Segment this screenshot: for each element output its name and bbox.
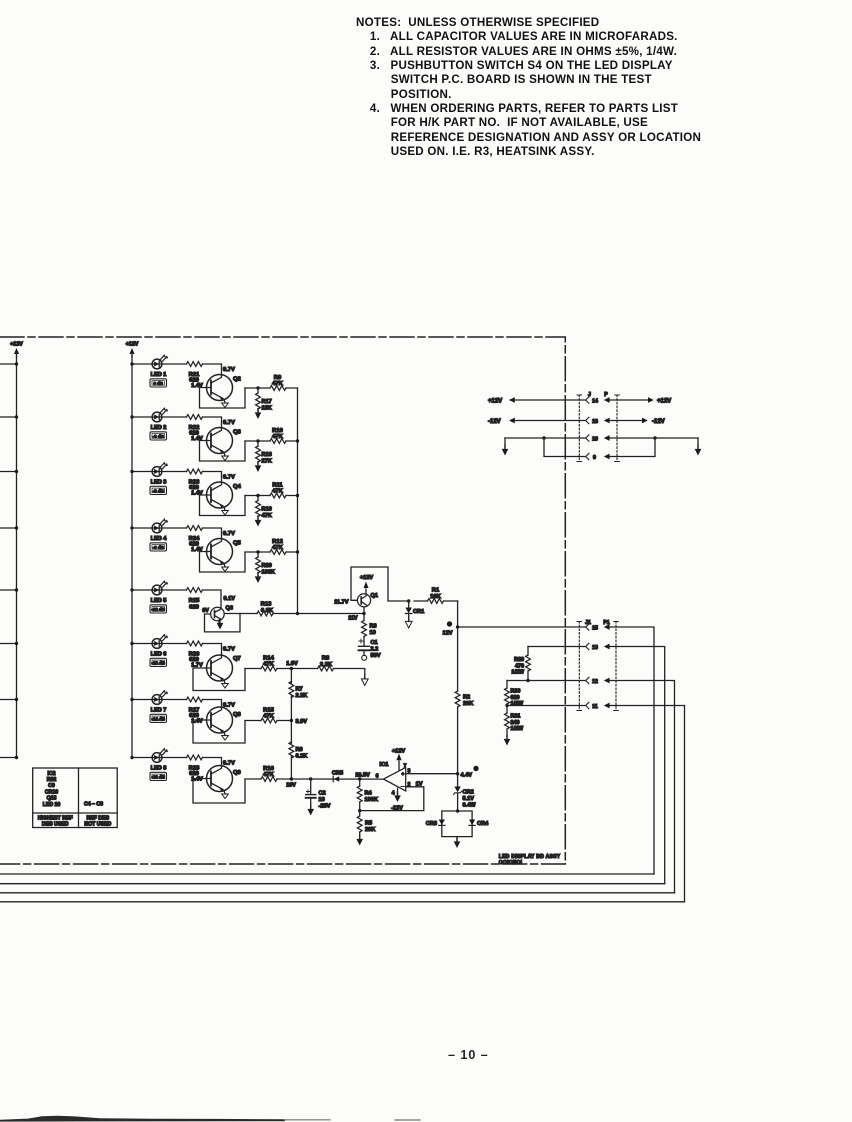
svg-text:10.5V: 10.5V [355, 772, 370, 778]
svg-text:-12V: -12V [488, 419, 501, 425]
node rail junction LED 1 row [130, 362, 133, 365]
wire to base of Q6 [203, 590, 222, 609]
junction node R18 [256, 439, 259, 442]
svg-text:IC2: IC2 [47, 771, 55, 777]
resistor R27 620 [187, 697, 203, 702]
svg-text:-12V: -12V [652, 419, 665, 425]
resistor R24 620 [187, 526, 203, 531]
label -30 dB box [150, 772, 167, 780]
ref designation table [33, 768, 118, 828]
svg-text:R4: R4 [365, 791, 373, 797]
svg-text:2.2K: 2.2K [296, 693, 308, 699]
junction node R17 [256, 386, 259, 389]
svg-text:180K: 180K [262, 570, 275, 576]
svg-text:14: 14 [592, 399, 598, 405]
LED 5 [152, 581, 168, 595]
emitter arrow Q6 [218, 620, 220, 623]
svg-text:CR5: CR5 [332, 771, 343, 777]
svg-text:Q4: Q4 [233, 484, 242, 490]
svg-text:6.8K: 6.8K [261, 608, 274, 614]
svg-text:C4 – C8: C4 – C8 [84, 802, 103, 808]
svg-text:470: 470 [515, 663, 524, 669]
junction node R19 [256, 494, 259, 497]
svg-text:240: 240 [511, 720, 520, 726]
svg-text:+12V: +12V [488, 399, 502, 405]
svg-text:R30: R30 [511, 689, 521, 695]
svg-text:-3 dB: -3 dB [153, 434, 164, 439]
node rail junction LED 5 row [130, 588, 133, 591]
svg-text:-9 dB: -9 dB [153, 545, 164, 550]
wire to base of Q2 [203, 364, 222, 375]
svg-text:HIGHEST REF: HIGHEST REF [38, 815, 73, 821]
svg-text:LED 1: LED 1 [151, 372, 167, 378]
wire bundle line 1 [0, 873, 654, 875]
wire Q1 base loop [351, 567, 409, 601]
svg-text:R2: R2 [463, 695, 470, 701]
svg-text:R3: R3 [370, 624, 377, 630]
resistor R30 620 1/2W [506, 681, 508, 689]
svg-text:1/2W: 1/2W [511, 726, 524, 732]
node rail junction LED 4 row [130, 526, 133, 529]
svg-text:R8: R8 [322, 656, 330, 662]
svg-text:CR10: CR10 [45, 789, 58, 795]
svg-text:Q18: Q18 [47, 796, 57, 802]
transistor Q1 [357, 594, 370, 607]
pin 15 row (12V) [458, 626, 585, 628]
resistor R31 240 1/2W [506, 706, 508, 714]
svg-text:13: 13 [592, 645, 598, 651]
svg-text:+12V: +12V [126, 342, 139, 348]
svg-text:620: 620 [511, 695, 520, 701]
transistor Q4 [207, 482, 233, 515]
wire connector dotted separators bottom [579, 622, 616, 711]
svg-text:+12V: +12V [657, 399, 671, 405]
pin 11 row [507, 705, 585, 707]
svg-text:10V: 10V [286, 783, 296, 789]
label -9 dB box [150, 543, 167, 551]
svg-text:Q7: Q7 [233, 656, 241, 662]
svg-text:0.7V: 0.7V [223, 647, 235, 653]
wire base return Q3 [200, 441, 246, 462]
svg-text:2.2K: 2.2K [320, 662, 333, 668]
ground arrow below box [456, 837, 458, 841]
svg-text:Q9: Q9 [233, 770, 242, 776]
resistor R8 2.2K [291, 669, 364, 679]
svg-text:50V: 50V [371, 653, 381, 659]
node rail junction LED 8 row [130, 756, 133, 759]
svg-text:47K: 47K [263, 714, 274, 720]
svg-text:11: 11 [592, 704, 598, 710]
wire off-page tick row y=590.0 [0, 589, 17, 591]
svg-text:47K: 47K [272, 545, 283, 551]
wire LED 2 row [132, 416, 187, 418]
svg-text:CR2: CR2 [463, 790, 474, 796]
svg-text:47K: 47K [272, 381, 283, 387]
transistor Q6 [211, 607, 225, 621]
wire base return Q7 [193, 668, 245, 691]
svg-text:-12 dB: -12 dB [151, 607, 164, 612]
svg-text:0 dB: 0 dB [153, 381, 163, 386]
svg-text:180K: 180K [365, 797, 378, 803]
svg-text:Q8: Q8 [233, 712, 242, 718]
wire to base of Q9 [203, 758, 222, 766]
diode CR1 [407, 599, 410, 602]
label -24 dB box [150, 714, 167, 722]
svg-text:IC1: IC1 [379, 762, 389, 768]
diode CR3 [439, 820, 445, 826]
diode CR5 [334, 776, 339, 782]
svg-text:CR1: CR1 [413, 609, 424, 615]
svg-text:20K: 20K [365, 827, 375, 833]
resistor R16 47K [261, 777, 277, 782]
wire node row stage 2 [245, 440, 298, 442]
wire node row stage 8 [245, 778, 291, 780]
page number [448, 1048, 489, 1062]
svg-text:1/2W: 1/2W [511, 670, 524, 676]
LED 6 [152, 635, 168, 649]
wire base return Q4 [200, 495, 246, 516]
wire to base of Q4 [203, 472, 222, 483]
wire base return Q6 [205, 614, 241, 632]
svg-text:+: + [401, 771, 404, 776]
svg-text:Q2: Q2 [233, 377, 241, 383]
svg-text:LED 6: LED 6 [151, 652, 167, 658]
resistor R3 10 [363, 614, 365, 621]
resistor R29 470 1/2W [527, 647, 529, 656]
svg-text:LED 5: LED 5 [151, 598, 167, 604]
svg-text:R25: R25 [189, 598, 200, 604]
wire divider ladder vertical [290, 669, 292, 780]
svg-text:Q3: Q3 [233, 430, 242, 436]
resistor R9 47K [270, 386, 286, 391]
svg-text:3.9V: 3.9V [296, 719, 308, 725]
svg-text:12: 12 [592, 679, 598, 685]
wire off-page tick row y=471.5 [0, 471, 17, 473]
wire LED 4 row [132, 527, 187, 529]
svg-text:0.4W: 0.4W [463, 803, 477, 809]
resistor R23 620 [187, 469, 203, 474]
svg-text:+12V: +12V [360, 575, 373, 581]
ground right [697, 438, 699, 448]
label -6 dB box [150, 486, 167, 494]
svg-text:R32: R32 [47, 777, 57, 783]
svg-text:0.7V: 0.7V [223, 761, 235, 767]
svg-text:5.1V: 5.1V [463, 796, 475, 802]
svg-text:+12V: +12V [392, 749, 405, 755]
wire off-page tick row y=699.5 [0, 699, 17, 701]
svg-text:1/2W: 1/2W [511, 701, 524, 707]
wire off-page tick row y=364.0 [0, 363, 17, 365]
svg-text:47K: 47K [263, 662, 274, 668]
label -18 dB box [150, 658, 167, 666]
pin 7 +12V [398, 761, 400, 770]
svg-text:20K: 20K [463, 701, 473, 707]
svg-text:1.9V: 1.9V [286, 661, 298, 667]
svg-text:620: 620 [189, 605, 199, 611]
LED 3 [152, 463, 168, 477]
notes text block [356, 16, 701, 159]
wire base return Q5 [200, 552, 246, 573]
wire off-page tick row y=417.0 [0, 416, 17, 418]
svg-text:C9: C9 [48, 783, 55, 789]
pin 4 -12V [397, 788, 399, 795]
svg-text:R18: R18 [262, 452, 272, 458]
wire to base of Q7 [203, 644, 222, 656]
svg-text:-24 dB: -24 dB [151, 716, 164, 721]
node 3.9V [290, 719, 293, 722]
svg-text:47K: 47K [262, 513, 272, 519]
svg-text:7: 7 [404, 764, 407, 770]
wire connector dotted separators top [579, 395, 617, 462]
node 11V [362, 612, 365, 615]
svg-text:R31: R31 [511, 714, 521, 720]
wire to base of Q5 [203, 528, 222, 539]
wire off-page tick row y=757.5 [0, 757, 17, 759]
label -12 dB box [150, 605, 167, 613]
scan artifact bottom edge [0, 1116, 285, 1122]
svg-text:LED 3: LED 3 [151, 480, 167, 486]
svg-text:10K: 10K [430, 594, 441, 600]
wire LED 3 row [132, 471, 187, 473]
svg-text:16: 16 [592, 419, 598, 425]
resistor R18 27K [257, 441, 259, 446]
wire bundle line 4 [0, 901, 685, 903]
transistor Q9 [207, 766, 233, 799]
svg-text:10: 10 [592, 437, 598, 443]
svg-text:12V: 12V [443, 631, 453, 637]
svg-text:11.7V: 11.7V [334, 600, 349, 606]
svg-text:R7: R7 [296, 687, 303, 693]
svg-text:R13: R13 [261, 602, 272, 608]
svg-text:Q6: Q6 [226, 606, 233, 612]
svg-text:LED 16: LED 16 [43, 802, 61, 808]
resistor R25 620 [187, 588, 203, 593]
svg-text:27K: 27K [262, 459, 272, 465]
wire off-page tick row y=643.5 [0, 643, 17, 645]
node 10V [290, 777, 293, 780]
wire LED 5 row [132, 589, 187, 591]
svg-text:R17: R17 [262, 399, 272, 405]
resistor R4 180K [358, 777, 361, 780]
svg-text:10: 10 [370, 630, 376, 636]
svg-text:LED 8: LED 8 [151, 766, 167, 772]
resistor R17 15K [257, 388, 259, 393]
resistor R5 20K [358, 809, 361, 812]
LED 4 [152, 519, 168, 533]
resistor R6 6.2K [289, 742, 294, 758]
wire bundle line 3 [0, 892, 675, 894]
svg-text:4: 4 [392, 791, 395, 797]
resistor R13 6.8K [257, 611, 273, 616]
diode CR4 [469, 820, 475, 826]
svg-text:9: 9 [593, 455, 596, 461]
resistor R19 47K [257, 496, 259, 501]
svg-text:0.7V: 0.7V [223, 531, 235, 537]
svg-text:-30 dB: -30 dB [151, 774, 164, 779]
svg-text:6V: 6V [202, 608, 209, 614]
node 1.9V [290, 667, 293, 670]
resistor R11 47K [270, 493, 286, 498]
svg-text:47K: 47K [263, 772, 274, 778]
wire Q1 emitter [363, 607, 365, 614]
diode bridge box CR3 CR4 [456, 809, 459, 812]
label 0 dB box [150, 379, 167, 387]
wire bundle line 2 [0, 883, 665, 885]
wire common input vertical [297, 388, 299, 614]
svg-text:6.2K: 6.2K [296, 754, 308, 760]
wire LED 8 row [132, 757, 187, 759]
wire node row stage 7 [245, 720, 291, 722]
svg-text:OOIOIIOI: OOIOIIOI [499, 860, 523, 866]
wire LED 6 row [132, 643, 187, 645]
resistor R28 620 [187, 755, 203, 760]
svg-text:DES USED: DES USED [42, 821, 69, 827]
svg-text:-6 dB: -6 dB [153, 488, 164, 493]
wire to base of Q3 [203, 417, 222, 428]
wire Q6 collector to R13 [224, 613, 364, 615]
svg-text:11V: 11V [348, 616, 358, 622]
svg-text:R6: R6 [296, 747, 303, 753]
svg-text:CR4: CR4 [477, 821, 489, 827]
node rail junction LED 6 row [130, 642, 133, 645]
node 12V junction [456, 625, 459, 628]
wire node row stage 3 [245, 495, 298, 497]
resistor R22 620 [187, 415, 203, 420]
transistor Q7 [207, 655, 233, 688]
resistor R1 10K [414, 600, 458, 602]
svg-text:-18 dB: -18 dB [151, 660, 164, 665]
node rail junction LED 2 row [130, 415, 133, 418]
svg-text:47K: 47K [272, 434, 283, 440]
svg-text:R29: R29 [514, 657, 524, 663]
wire base return Q2 [200, 388, 246, 409]
resistor R2 20K [455, 691, 460, 707]
svg-text:P: P [604, 392, 608, 398]
wire node row stage 1 [245, 387, 298, 389]
svg-text:LED 2: LED 2 [151, 425, 167, 431]
wire LED 7 row [132, 699, 187, 701]
LED 7 [152, 691, 168, 705]
svg-text:2.2: 2.2 [371, 647, 379, 653]
svg-text:R20: R20 [262, 563, 272, 569]
svg-text:CR3: CR3 [426, 821, 437, 827]
svg-text:LED 4: LED 4 [151, 536, 168, 542]
resistor R21 620 [187, 362, 203, 367]
transistor Q8 [207, 707, 233, 740]
svg-text:R1: R1 [432, 588, 440, 594]
node +12V rail 2 [126, 342, 139, 758]
wire node row stage 6 [245, 668, 291, 670]
wire node row stage 4 [245, 551, 298, 553]
svg-text:0.7V: 0.7V [223, 475, 235, 481]
wire LED 1 row [132, 363, 187, 365]
resistor R7 2.2K [289, 682, 294, 698]
zener CR2 5.1V 0.4W [454, 787, 460, 793]
wire base return Q8 [193, 720, 245, 743]
resistor R15 47K [261, 718, 277, 723]
svg-text:LED 7: LED 7 [151, 708, 167, 714]
wire main vertical from R1 [457, 601, 459, 811]
svg-text:47K: 47K [272, 489, 283, 495]
svg-text:NOT USED: NOT USED [84, 821, 111, 827]
node +12V rail 1 [10, 342, 23, 758]
wire to base of Q8 [203, 700, 222, 708]
wire base return Q9 [193, 779, 245, 804]
svg-text:R5: R5 [365, 821, 372, 827]
svg-text:0.7V: 0.7V [223, 367, 235, 373]
svg-text:10: 10 [319, 797, 325, 803]
transistor Q2 [207, 375, 233, 408]
svg-text:0.1V: 0.1V [224, 596, 236, 602]
LED 8 [152, 749, 168, 763]
svg-text:R19: R19 [262, 507, 272, 513]
LED 2 [152, 408, 168, 422]
svg-text:C1: C1 [371, 640, 378, 646]
svg-text:0.7V: 0.7V [223, 420, 235, 426]
wire off-page tick row y=528.0 [0, 527, 17, 529]
pin 9 row [544, 438, 585, 457]
svg-text:REF DES: REF DES [87, 815, 110, 821]
junction dots on common vertical [296, 439, 299, 442]
ground left [504, 438, 506, 448]
resistor R10 47K [270, 439, 286, 444]
svg-text:15K: 15K [262, 406, 272, 412]
capacitor C1 2.2 50V [363, 637, 365, 647]
svg-text:15: 15 [592, 626, 598, 632]
test point 12V [447, 621, 452, 626]
pin 12 row [507, 680, 585, 682]
transistor Q5 [207, 539, 233, 572]
svg-text:+12V: +12V [10, 342, 23, 348]
label -3 dB box [150, 432, 167, 440]
svg-text:-25V: -25V [319, 804, 331, 810]
svg-text:Q5: Q5 [233, 541, 242, 547]
junction node R20 [256, 550, 259, 553]
pin 13 row [528, 646, 585, 648]
svg-text:4.4V: 4.4V [461, 773, 473, 779]
svg-text:Q1: Q1 [371, 593, 378, 599]
resistor R12 47K [270, 550, 286, 555]
op-amp IC1 [384, 767, 406, 791]
node 4.4V [456, 772, 459, 775]
resistor R20 180K [257, 552, 259, 557]
capacitor C2 10 -25V [309, 777, 312, 780]
pin 10 ground row [505, 437, 585, 439]
node rail junction LED 7 row [130, 698, 133, 701]
node rail junction LED 3 row [130, 470, 133, 473]
ground open arrow below R8 [361, 675, 368, 686]
resistor R14 47K [261, 666, 277, 671]
svg-text:C2: C2 [319, 791, 326, 797]
resistor R26 620 [187, 641, 203, 646]
wire assembly border dash-dot [0, 337, 565, 864]
LED 1 [152, 355, 168, 369]
transistor Q3 [207, 428, 233, 461]
